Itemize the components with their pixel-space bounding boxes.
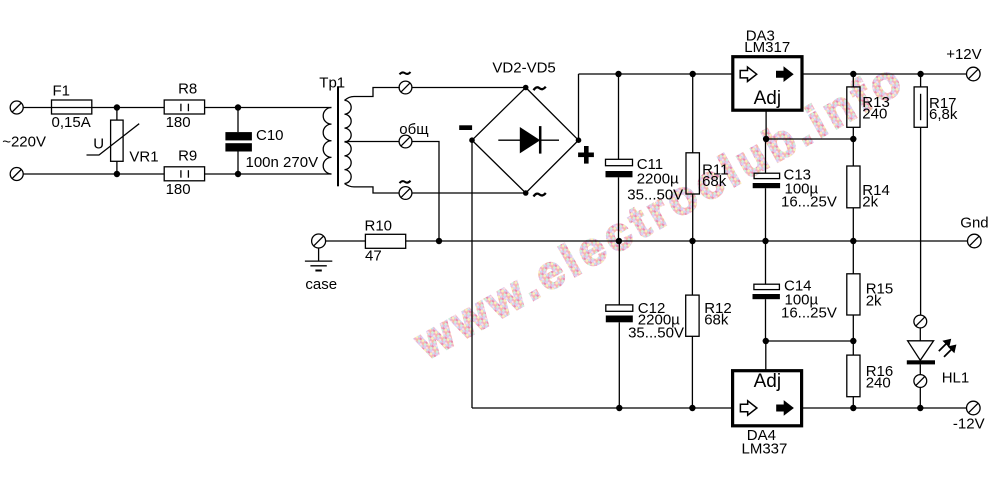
svg-text:2k: 2k xyxy=(862,193,878,210)
svg-text:общ: общ xyxy=(399,121,428,138)
terminal Gnd xyxy=(968,234,982,248)
bridge minus sign xyxy=(459,125,472,130)
transformer Tp1 secondary winding xyxy=(345,100,352,183)
terminal -12V xyxy=(967,401,981,415)
terminal secondary bottom (~) xyxy=(399,187,412,200)
wire bridge minus vertex down xyxy=(471,140,473,408)
node B junction dot (bottom of VR1) xyxy=(114,171,120,177)
svg-text:+12V: +12V xyxy=(946,46,981,63)
DA3 output filled arrow xyxy=(776,66,794,82)
transformer Tp1 primary winding xyxy=(323,108,331,175)
node -V/C12 junction dot xyxy=(616,405,622,411)
varistor VR1 xyxy=(87,108,140,175)
resistor R10 xyxy=(365,234,405,248)
node -V/R12 junction dot xyxy=(689,405,695,411)
svg-text:Adj: Adj xyxy=(754,88,781,109)
terminal X1 ~220V line 1 xyxy=(10,101,23,114)
svg-text:6,8k: 6,8k xyxy=(929,106,958,123)
resistor R13 xyxy=(847,74,860,139)
wire gnd rail: R10 to Gnd terminal xyxy=(406,240,968,242)
wire -V rail: bridge to DA4 input xyxy=(472,407,733,409)
svg-text:case: case xyxy=(305,276,337,293)
capacitor C13 xyxy=(753,139,780,241)
wire mains bottom rail: R9 to transformer primary xyxy=(205,173,332,175)
svg-text:VD2-VD5: VD2-VD5 xyxy=(492,59,555,76)
node A junction dot (top of VR1) xyxy=(114,104,120,110)
node gnd/C13-C14 junction dot xyxy=(762,238,768,244)
node gnd/R11-R12 junction dot xyxy=(689,238,695,244)
wire mains top rail: terminal to F1 xyxy=(23,107,51,109)
wire secondary top terminal to bridge top vertex xyxy=(412,87,526,89)
resistor R8 xyxy=(164,100,204,114)
svg-text:Gnd: Gnd xyxy=(960,215,988,232)
svg-text:35...50V: 35...50V xyxy=(627,187,683,204)
svg-text:C10: C10 xyxy=(256,127,284,144)
LED HL1 bottom lead terminal xyxy=(914,375,927,388)
svg-text:R9: R9 xyxy=(178,147,197,164)
tilde mark above bottom secondary terminal xyxy=(400,181,411,183)
DA3 Adj pin wire xyxy=(765,110,767,139)
svg-text:U: U xyxy=(93,136,104,153)
svg-text:2k: 2k xyxy=(866,292,882,309)
terminal secondary centre (общ) xyxy=(399,135,412,148)
DA4 input open arrow xyxy=(740,401,757,415)
bridge plus sign xyxy=(578,146,594,164)
node R15/R16 junction dot xyxy=(850,338,856,344)
svg-text:F1: F1 xyxy=(53,83,71,100)
node R13/R14 junction dot xyxy=(850,136,856,142)
wire +V rail: bridge to DA3 input xyxy=(579,73,733,75)
wire LED bottom to -V rail xyxy=(919,387,921,408)
node R17 top junction dot xyxy=(917,71,923,77)
svg-text:~220V: ~220V xyxy=(2,134,46,151)
DA4 Adj pin wire xyxy=(765,341,767,371)
transformer Tp1 core xyxy=(337,86,339,186)
wire mains bottom rail: terminal to R9 xyxy=(23,173,164,175)
wire DA3 output to +12V terminal xyxy=(802,73,967,75)
svg-text:R8: R8 xyxy=(178,81,197,98)
svg-text:16...25V: 16...25V xyxy=(781,305,837,322)
svg-text:0,15A: 0,15A xyxy=(52,114,91,131)
tilde mark above top secondary terminal xyxy=(400,72,411,74)
svg-text:35...50V: 35...50V xyxy=(628,324,684,341)
node DA3-adj junction dot xyxy=(763,136,769,142)
node HL1 bottom junction dot xyxy=(917,405,923,411)
DA3 input open arrow xyxy=(740,67,757,81)
regulator DA4 box xyxy=(733,371,802,426)
regulator DA3 box xyxy=(733,57,802,110)
fuse F1 xyxy=(52,100,92,114)
node C junction dot (top of C10) xyxy=(235,104,241,110)
terminal +12V xyxy=(967,67,981,81)
terminal X2 ~220V line 2 xyxy=(10,168,23,181)
node D junction dot (bottom of C10) xyxy=(235,171,241,177)
resistor R12 xyxy=(686,241,699,408)
terminal secondary top (~) xyxy=(399,81,412,94)
svg-text:16...25V: 16...25V xyxy=(781,194,837,211)
LED HL1 emission arrows xyxy=(938,339,956,358)
wire mains top rail: R8 to transformer primary xyxy=(205,107,332,109)
node +V/C11 junction dot xyxy=(615,71,621,77)
svg-text:47: 47 xyxy=(365,247,382,264)
DA3 adj rail wire xyxy=(766,138,853,140)
wire DA4 output to -12V terminal xyxy=(802,407,967,409)
resistor R16 xyxy=(847,341,860,408)
wire общ terminal to gnd rail xyxy=(412,142,440,242)
svg-text:240: 240 xyxy=(866,375,891,392)
capacitor C11 xyxy=(606,74,633,241)
svg-text:2200µ: 2200µ xyxy=(637,171,679,188)
LED HL1 top lead terminal xyxy=(914,315,927,328)
tilde mark at bridge top xyxy=(534,87,546,91)
capacitor C14 xyxy=(753,241,780,341)
resistor R9 xyxy=(164,167,204,181)
resistor R14 xyxy=(847,139,860,241)
ground symbol (case) xyxy=(305,248,332,271)
node R13 top junction dot xyxy=(850,71,856,77)
capacitor C12 xyxy=(606,241,633,408)
wire secondary bottom terminal to bridge bottom vertex xyxy=(412,192,526,194)
svg-text:100n 270V: 100n 270V xyxy=(246,154,319,171)
bridge rectifier VD2-VD5 diamond xyxy=(472,88,579,194)
svg-text:LM337: LM337 xyxy=(742,441,788,458)
svg-text:180: 180 xyxy=(166,114,191,131)
node +V/R11 junction dot xyxy=(690,71,696,77)
node R16 bottom junction dot xyxy=(850,405,856,411)
resistor R17 with 1W mark xyxy=(914,74,927,315)
bridge diode symbol xyxy=(498,126,559,154)
node bridge left vertex dot xyxy=(469,137,475,143)
node gnd/общ junction dot xyxy=(436,238,442,244)
svg-text:HL1: HL1 xyxy=(942,370,970,387)
capacitor C10 xyxy=(225,108,252,175)
node DA4-adj junction dot xyxy=(763,338,769,344)
svg-text:Tp1: Tp1 xyxy=(319,75,345,92)
svg-text:LM317: LM317 xyxy=(744,39,790,56)
wire secondary bottom end to terminal xyxy=(345,184,400,194)
svg-text:180: 180 xyxy=(166,181,191,198)
resistor R11 xyxy=(686,74,699,241)
node gnd/R14-R15 junction dot xyxy=(850,238,856,244)
tilde mark at bridge bottom xyxy=(534,193,546,197)
resistor R15 xyxy=(847,241,860,341)
svg-text:VR1: VR1 xyxy=(129,148,158,165)
node bridge top vertex dot xyxy=(523,85,529,91)
node bridge right vertex dot xyxy=(576,137,582,143)
node gnd/C11-C12 junction dot xyxy=(616,238,622,244)
wire gnd rail: case to Gnd terminal xyxy=(326,240,366,242)
svg-text:68k: 68k xyxy=(704,312,729,329)
LED HL1 diode symbol xyxy=(907,328,935,375)
wire secondary top end to terminal xyxy=(345,88,400,101)
svg-text:68k: 68k xyxy=(702,173,727,190)
svg-text:240: 240 xyxy=(862,106,887,123)
svg-text:R10: R10 xyxy=(365,218,393,235)
svg-text:-12V: -12V xyxy=(953,416,985,433)
terminal case xyxy=(312,234,326,248)
wire bridge plus vertex up to +V rail xyxy=(578,74,580,140)
svg-text:Adj: Adj xyxy=(754,371,781,392)
node bridge bottom vertex dot xyxy=(523,190,529,196)
DA4 output filled arrow xyxy=(776,400,794,416)
wire secondary centre tap to terminal xyxy=(345,141,400,143)
DA4 adj rail wire xyxy=(766,340,854,342)
wire mains top rail: F1 to node A xyxy=(92,107,164,109)
